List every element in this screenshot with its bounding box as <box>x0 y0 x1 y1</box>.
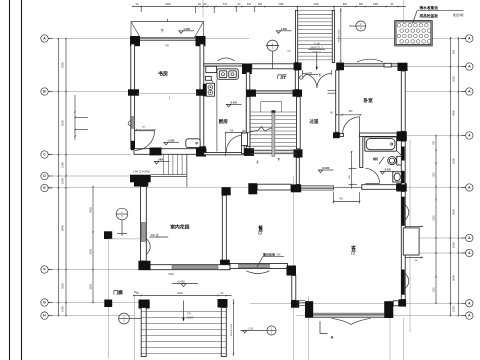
column divider south <box>220 260 230 270</box>
dimension 750 below living window <box>333 201 359 203</box>
svg-text:成品砼盖板: 成品砼盖板 <box>420 13 439 18</box>
detail marker circle porch left <box>119 313 130 324</box>
dimension rail porch right <box>233 299 235 356</box>
bay window trapezoid left diagonal <box>131 22 140 38</box>
window gray segment garden south <box>172 266 218 269</box>
svg-text:下: 下 <box>161 28 165 33</box>
main stair center handrail <box>272 111 275 157</box>
svg-text:90: 90 <box>136 3 139 6</box>
window W1 study north triple line <box>140 36 197 38</box>
column study west mid <box>128 89 139 95</box>
svg-text:-1.300: -1.300 <box>168 140 175 143</box>
grid line col (x308.5) bottom <box>308 296 310 360</box>
toilet bowl <box>388 157 397 165</box>
column porch-living small <box>291 300 299 307</box>
svg-text:下9: 下9 <box>187 311 192 315</box>
dimension line top <box>133 6 406 8</box>
svg-text:950: 950 <box>349 111 354 113</box>
svg-text:门廊: 门廊 <box>113 289 123 296</box>
door D2 kitchen leaf rect <box>242 134 245 153</box>
wall study west double <box>131 44 135 149</box>
lower stair risers <box>163 155 165 175</box>
dimension rail right inner x436 <box>435 136 437 304</box>
porch step rail right <box>221 308 226 357</box>
svg-text:G: G <box>43 301 46 305</box>
svg-text:90: 90 <box>330 113 333 115</box>
column living SW big <box>305 301 313 318</box>
svg-text:5: 5 <box>123 319 125 323</box>
detail marker circle 1 top <box>267 40 278 51</box>
wall corridor south of kitchen double <box>204 153 248 155</box>
grid line row A (y38.5) right <box>336 38 466 40</box>
svg-text:F: F <box>43 268 45 272</box>
svg-text:9X280=2520: 9X280=2520 <box>338 29 340 42</box>
wall connector living SE <box>393 301 398 306</box>
column corridor mid x252 <box>248 183 257 194</box>
svg-text:H: H <box>43 314 46 318</box>
grid line col (x403.8) bottom <box>403 318 405 360</box>
svg-text:A: A <box>468 314 471 318</box>
column main stair SW <box>244 148 254 156</box>
wall bathroom west double <box>360 136 363 167</box>
column porch east <box>218 299 228 308</box>
dimension rail right of top stair <box>340 8 342 62</box>
wall pilaster stub corridor east <box>328 89 336 91</box>
wall living north double <box>362 185 397 190</box>
svg-text:6300: 6300 <box>61 120 65 126</box>
svg-text:1: 1 <box>121 210 123 214</box>
svg-text:5: 5 <box>121 214 123 218</box>
window black segment living east upper <box>402 197 405 226</box>
column kitchen NE <box>242 64 252 75</box>
column bedroom SE corner <box>397 131 407 141</box>
grid bubble left E <box>41 184 48 191</box>
window gray segment study west wall <box>131 117 134 129</box>
grid line row C (y91.5) right part <box>406 91 466 93</box>
svg-text:上18: 上18 <box>314 42 320 46</box>
door D5 bathroom leaf <box>365 182 379 184</box>
grid line col (x203) top stub <box>202 0 204 18</box>
level marker -0.030 bathroom <box>380 172 384 175</box>
column building NE corner <box>398 63 408 71</box>
svg-text:2100: 2100 <box>61 162 65 168</box>
wall black segment garden north <box>130 175 151 183</box>
wall garden south double <box>141 265 230 270</box>
svg-text:1250: 1250 <box>452 306 456 312</box>
svg-text:240: 240 <box>414 260 418 262</box>
svg-text:室内花园: 室内花园 <box>170 223 189 230</box>
kitchen counter rect <box>206 66 217 72</box>
svg-text:-1.200: -1.200 <box>183 27 191 31</box>
dimension line porch top <box>133 295 232 297</box>
svg-text:2: 2 <box>272 46 274 50</box>
detail marker circle garden <box>116 208 128 220</box>
section symbol A <box>320 321 328 333</box>
lower stair right jamb line <box>186 155 188 187</box>
level marker 4.150 in kitchen <box>226 105 230 108</box>
wall study south double <box>134 149 206 155</box>
wall entry north left segment <box>252 64 294 69</box>
wall kitchen north double <box>204 64 243 66</box>
svg-text:4400: 4400 <box>452 110 456 116</box>
grid bubble right 5 <box>466 184 473 191</box>
column living NW <box>291 184 301 192</box>
door D4 bedroom leaf <box>359 117 361 134</box>
bay window center tick <box>167 19 169 22</box>
porch center direction line <box>183 301 185 322</box>
svg-text:A: A <box>468 251 471 255</box>
svg-text:90: 90 <box>136 292 139 295</box>
porch step rail left <box>141 308 146 357</box>
hall wash basin <box>186 139 200 148</box>
wall building east double bathroom <box>401 141 405 185</box>
svg-text:240: 240 <box>287 51 291 53</box>
grid bubble right 3 <box>466 88 473 95</box>
svg-text:A: A <box>43 37 46 41</box>
wall study east double <box>200 44 204 148</box>
wall corridor south double x257-291 <box>257 184 291 190</box>
window black segment bathroom east <box>402 147 405 161</box>
grid bubble right 9 <box>466 312 473 319</box>
dimension bathroom door rail <box>351 151 353 189</box>
entry double door left arc <box>303 74 317 88</box>
svg-text:1300: 1300 <box>434 287 436 293</box>
svg-text:750: 750 <box>229 130 234 132</box>
column entry west jamb <box>294 63 302 71</box>
dimension rail left vertical <box>58 39 60 317</box>
rainwater panel leader line <box>413 11 418 24</box>
window bedroom north wall <box>344 63 398 65</box>
wall black segment study south <box>150 148 162 156</box>
porch steps treads <box>142 311 227 313</box>
grid line row L (y315.6) right part <box>296 315 466 317</box>
entry double door left leaf <box>302 70 304 75</box>
svg-text:5050: 5050 <box>452 209 456 215</box>
svg-text:14X171.4=2400: 14X171.4=2400 <box>133 171 151 174</box>
wall dining east lower double <box>292 276 296 301</box>
svg-text:2: 2 <box>271 331 273 335</box>
wall below entry west jamb <box>295 70 298 89</box>
grid line row C (y91.5) left part <box>48 91 131 93</box>
svg-text:3200: 3200 <box>61 283 65 289</box>
grid bubble right 2 <box>466 63 473 70</box>
svg-text:570: 570 <box>223 3 228 6</box>
bathtub inner <box>366 138 395 149</box>
dimension extension drops top <box>140 7 142 13</box>
svg-text:A: A <box>468 186 471 190</box>
dimension rail right vertical <box>450 37 452 316</box>
grid bubble left G <box>41 299 48 306</box>
grid bubble left H <box>41 312 48 319</box>
svg-text:150X9: 150X9 <box>187 317 195 320</box>
grid bubble right 7 <box>466 249 473 256</box>
wall building east double living <box>401 192 405 300</box>
wall kitchen east double <box>246 72 250 154</box>
svg-text:D: D <box>43 174 46 178</box>
column divider north <box>222 187 231 195</box>
column main stair NW <box>247 90 257 97</box>
main stair treads <box>250 111 297 113</box>
dimension rail left inner x93 <box>92 187 94 303</box>
level marker -1.200 at bay window <box>179 31 183 34</box>
shower diagonal mark <box>379 157 384 165</box>
rainwater collection panel hatched <box>395 21 433 46</box>
grid bubble left F <box>41 266 48 273</box>
svg-text:-1.200: -1.200 <box>280 28 287 31</box>
kitchen stove with burners <box>206 83 214 96</box>
grid line row K (y302.5) left part <box>48 302 141 304</box>
svg-text:门厅: 门厅 <box>277 74 287 81</box>
grid line row L (y315.6) left part <box>48 315 134 317</box>
lower stair bottom edge <box>151 174 187 176</box>
grid line col (x293.5) long <box>293 176 295 360</box>
svg-text:书房: 书房 <box>158 71 168 78</box>
column study NE <box>196 36 206 46</box>
toilet tank <box>397 156 402 165</box>
column study NW <box>130 36 140 46</box>
svg-text:1400: 1400 <box>158 159 164 162</box>
exterior stair treads <box>298 10 333 12</box>
svg-text:90: 90 <box>221 292 224 295</box>
exterior stair rail left double <box>295 11 297 63</box>
casement window arc east upper <box>405 205 408 220</box>
grid line row G (y187.2) full <box>48 186 466 188</box>
svg-text:500: 500 <box>452 49 456 54</box>
column veranda south <box>104 300 112 308</box>
level marker -0.450 porch big <box>181 284 186 287</box>
grid bubble right 1 <box>466 35 473 42</box>
wall main stair east double <box>297 97 301 149</box>
door D1 study arc <box>135 131 155 151</box>
grid line col (x410) right mid <box>409 140 411 332</box>
svg-text:-1.50: -1.50 <box>248 328 254 331</box>
svg-text:卧室: 卧室 <box>364 97 374 104</box>
svg-text:A: A <box>331 335 334 340</box>
casement window arc east lower <box>405 274 408 289</box>
svg-text:740: 740 <box>142 126 146 128</box>
dimension door D2 750 <box>226 132 243 134</box>
wall bedroom south double <box>360 133 398 136</box>
entry double door right leaf <box>330 70 332 75</box>
wall building east double upper <box>401 71 405 131</box>
exterior stair rail right double <box>332 11 334 63</box>
dimension chimney local <box>404 226 423 228</box>
wall black segment kitchen west <box>203 84 207 97</box>
svg-text:A: A <box>468 301 471 305</box>
svg-text:上: 上 <box>256 159 259 164</box>
column main stair SE <box>294 149 303 157</box>
svg-text:4200: 4200 <box>177 292 183 295</box>
window living south quad line <box>313 312 384 314</box>
svg-text:5400: 5400 <box>169 274 175 276</box>
svg-text:90: 90 <box>198 3 201 6</box>
svg-text:750: 750 <box>339 199 344 201</box>
svg-text:地砖: 地砖 <box>373 157 379 161</box>
svg-text:±0.000: ±0.000 <box>322 167 330 170</box>
wall stair bottom edge pair <box>254 150 294 152</box>
grid line row E (y154.5) left part <box>48 154 131 156</box>
veranda edge top <box>109 238 141 240</box>
kitchen counter edge line <box>216 79 218 151</box>
grid bubble left B <box>41 88 48 95</box>
grid line row B (y66.5) right part <box>407 66 466 68</box>
dimension door D1 740 <box>136 129 155 131</box>
window black segment bathroom east lower <box>402 171 405 184</box>
grid line row J (y269.5) left part <box>48 269 139 271</box>
svg-text:3700: 3700 <box>90 249 93 255</box>
grid bubble left C <box>41 151 48 158</box>
door D1 study leaf <box>135 130 155 132</box>
svg-text:9X150=1350: 9X150=1350 <box>231 323 233 336</box>
svg-text:910: 910 <box>247 3 252 6</box>
bay window trapezoid right edge <box>203 22 205 38</box>
dimension door D4 <box>336 114 361 116</box>
wall black jamb study west <box>131 141 135 150</box>
svg-text:1180: 1180 <box>278 3 284 6</box>
svg-text:过道: 过道 <box>310 118 319 125</box>
grid line col (x390) bottom <box>389 300 391 360</box>
svg-text:360: 360 <box>258 3 263 6</box>
level marker -1.450 lower stair <box>154 162 158 165</box>
wall stub right of hall column <box>340 133 344 136</box>
level marker +1.500 near bottom circle <box>243 331 247 334</box>
grid line row F (y176) left part <box>48 175 134 177</box>
window gray segment dining south <box>239 264 270 267</box>
svg-text:下: 下 <box>318 72 321 77</box>
wall bedroom west window double <box>336 70 339 132</box>
svg-text:5200: 5200 <box>452 158 456 164</box>
svg-text:厅: 厅 <box>258 229 263 236</box>
grid line col (x108.5) veranda edge <box>108 239 110 358</box>
grid line row I (y253) right part <box>404 252 466 254</box>
svg-text:60: 60 <box>238 3 241 6</box>
svg-text:-0.450: -0.450 <box>177 279 185 283</box>
svg-text:窗台压低: 窗台压低 <box>263 252 275 257</box>
svg-text:1460: 1460 <box>373 3 379 6</box>
svg-text:A: A <box>468 236 471 240</box>
column dining SE <box>287 266 297 276</box>
door D5 bathroom arc <box>365 168 379 183</box>
beam line study mid <box>137 93 198 95</box>
entry double door right arc <box>317 74 331 88</box>
svg-text:1000: 1000 <box>61 178 65 184</box>
svg-text:90: 90 <box>391 3 394 6</box>
column SE corner small <box>399 299 407 306</box>
svg-text:厅: 厅 <box>351 249 356 256</box>
wall garden-dining divider double <box>222 195 226 261</box>
column hall wall x333 <box>333 132 340 138</box>
svg-text:A: A <box>468 134 471 138</box>
wall main stair west double <box>246 97 250 147</box>
svg-text:5300: 5300 <box>61 62 65 68</box>
column garden NW <box>134 180 148 187</box>
bathtub outer <box>365 137 397 151</box>
svg-text:2630: 2630 <box>165 3 171 6</box>
bay window trapezoid top edge <box>131 21 204 23</box>
grid line col (x403.8) top stub <box>403 0 405 21</box>
svg-text:1200: 1200 <box>434 172 436 178</box>
main stair break line <box>241 127 272 134</box>
svg-text:2520: 2520 <box>452 76 456 82</box>
svg-text:180: 180 <box>242 131 246 133</box>
level marker -1.200 left of stair <box>276 31 280 34</box>
grid bubble right 6 <box>466 234 473 241</box>
svg-text:C: C <box>43 153 46 157</box>
bay window trapezoid right diagonal <box>195 22 204 38</box>
svg-text:厨房: 厨房 <box>219 118 229 125</box>
svg-text:A: A <box>468 90 471 94</box>
wall connector living SW <box>299 300 305 302</box>
sheet border line inner <box>21 0 23 360</box>
grid bubble right 4 <box>466 132 473 139</box>
kitchen sink double basin <box>217 69 238 80</box>
svg-text:1: 1 <box>272 42 274 46</box>
svg-text:下: 下 <box>277 157 280 162</box>
svg-text:1: 1 <box>123 315 125 319</box>
wall opening line corridor-living <box>334 186 363 188</box>
svg-text:2: 2 <box>360 22 362 26</box>
casement window arc study west <box>128 121 131 127</box>
detail marker circle right of stair <box>356 21 366 31</box>
detail marker circle bottom center <box>267 326 276 335</box>
door D2 kitchen jamb line <box>225 133 227 157</box>
grid line row K (y303.3) right part <box>250 302 466 304</box>
column main stair NE <box>293 90 303 97</box>
svg-text:8400: 8400 <box>61 225 65 231</box>
svg-text:B: B <box>43 90 46 94</box>
grid line row H (y238) right part <box>404 237 466 239</box>
svg-text:900 宽: 900 宽 <box>151 233 159 237</box>
wall stair SE to living NW connector <box>296 158 299 185</box>
door D2 kitchen arc <box>226 135 241 152</box>
window gray segment garden west <box>141 223 145 242</box>
svg-text:1330: 1330 <box>313 3 319 6</box>
wall garden west double <box>141 187 147 262</box>
column porch west <box>139 300 150 309</box>
window living north wall <box>301 185 333 187</box>
column veranda north <box>104 231 112 239</box>
column living SE big <box>384 301 393 318</box>
grid line col (x134.5) bottom <box>134 296 136 360</box>
casement window arc garden west <box>147 239 151 255</box>
washbasin bathroom SE <box>393 172 402 182</box>
gas meter symbol kitchen <box>206 77 212 81</box>
grid bubble right 8 <box>466 300 473 307</box>
window black segment living east lower <box>402 270 405 295</box>
svg-text:750: 750 <box>165 45 170 47</box>
grid line row A (y38.5) left <box>48 38 249 40</box>
svg-text:A: A <box>468 65 471 69</box>
svg-text:E: E <box>43 186 46 190</box>
level marker 0.000 corridor right <box>318 170 322 173</box>
grid line row D (y135.5) right part <box>407 135 466 137</box>
svg-text:3300: 3300 <box>90 284 93 290</box>
svg-text:750: 750 <box>434 140 436 145</box>
chimney bump rect <box>403 228 419 255</box>
svg-text:4600: 4600 <box>90 207 93 213</box>
svg-text:1500: 1500 <box>452 242 456 248</box>
bay window trapezoid left edge <box>130 22 132 38</box>
svg-text:5000: 5000 <box>452 275 456 281</box>
stairwell upper flight outline <box>261 101 282 103</box>
dining window curtain arc <box>246 271 270 274</box>
stair direction line with arrow <box>316 53 318 70</box>
svg-text:800: 800 <box>343 3 348 6</box>
column study east mid <box>196 89 206 95</box>
svg-text:雨水收集池: 雨水收集池 <box>420 5 439 10</box>
svg-text:做法详图: 做法详图 <box>453 13 464 17</box>
svg-text:A: A <box>468 37 471 41</box>
